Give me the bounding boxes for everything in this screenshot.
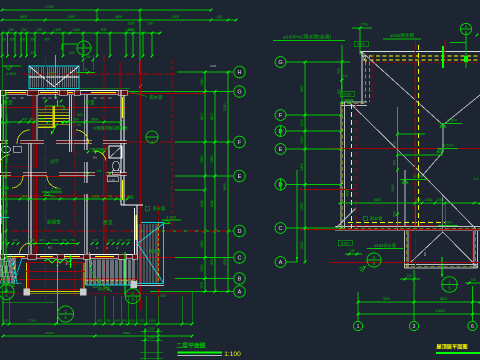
svg-text:600: 600 <box>69 51 75 55</box>
svg-text:G: G <box>237 89 241 95</box>
level 9.574 lower <box>437 144 458 153</box>
dim chain x305 <box>300 61 306 264</box>
bottom bubbles 1 3 6 <box>353 321 362 330</box>
svg-text:A: A <box>279 260 283 266</box>
svg-text:1300: 1300 <box>300 136 304 144</box>
svg-text:90: 90 <box>108 194 112 198</box>
canopy diagonals <box>138 224 164 284</box>
cyan diag B <box>13 258 22 284</box>
exterior wall right <box>120 91 122 206</box>
big dim row y203 <box>339 198 480 205</box>
valley from step corner <box>351 104 423 175</box>
svg-text:1200: 1200 <box>127 22 134 26</box>
ridge vertical <box>442 125 444 152</box>
svg-text:600: 600 <box>122 319 127 323</box>
hip lower-left <box>336 208 356 228</box>
svg-text:1:100: 1:100 <box>224 351 241 358</box>
svg-text:1#楼梯详图见楼梯表: 1#楼梯详图见楼梯表 <box>92 126 128 131</box>
svg-text:4515: 4515 <box>210 257 214 265</box>
svg-text:5180: 5180 <box>223 103 227 111</box>
valley branch to ridge <box>423 152 443 175</box>
stair treads yellow <box>38 109 69 125</box>
svg-text:1200: 1200 <box>300 119 304 127</box>
ticks right of stair <box>82 59 85 62</box>
svg-text:850: 850 <box>393 211 397 217</box>
svg-text:过厅: 过厅 <box>50 158 60 165</box>
interior dim row y199 <box>1 194 123 200</box>
level 3.300 <box>42 187 62 196</box>
svg-text:M2: M2 <box>423 252 427 256</box>
svg-text:4515: 4515 <box>223 257 227 265</box>
roof bay bottom eave <box>405 264 478 266</box>
svg-text:90: 90 <box>2 38 6 42</box>
left edge dim chain <box>1 56 3 324</box>
leader D <box>131 230 234 232</box>
svg-text:730: 730 <box>342 74 347 78</box>
bathroom shower <box>109 146 122 158</box>
svg-text:13020: 13020 <box>45 331 54 335</box>
svg-text:730: 730 <box>406 274 412 278</box>
svg-text:M1: M1 <box>93 156 97 160</box>
canopy hatch <box>138 224 158 283</box>
svg-text:6300: 6300 <box>343 93 351 97</box>
svg-text:雨水管: 雨水管 <box>98 285 110 291</box>
level mark 1.650 <box>2 66 21 76</box>
svg-text:C1: C1 <box>100 96 104 100</box>
svg-text:17940: 17940 <box>45 5 55 9</box>
svg-text:1500: 1500 <box>73 28 81 32</box>
dim row y243 <box>29 238 80 245</box>
grid bubble G2 <box>275 57 286 68</box>
svg-text:G: G <box>278 60 282 66</box>
leader B <box>175 278 234 280</box>
svg-text:900: 900 <box>128 196 134 200</box>
red grid A row right <box>330 262 480 264</box>
svg-text:900: 900 <box>22 194 28 198</box>
6300 box top <box>354 41 368 47</box>
svg-text:8.968: 8.968 <box>413 175 423 179</box>
svg-text:E: E <box>238 174 242 180</box>
svg-text:720: 720 <box>30 238 35 242</box>
wall row y140 <box>0 139 127 141</box>
chain x145-158 below <box>144 328 146 360</box>
level triangle step <box>345 100 353 105</box>
pier right <box>80 289 87 296</box>
dim total 17940 <box>1 5 213 11</box>
grid bubble E <box>234 170 246 182</box>
svg-text:3600: 3600 <box>300 85 304 93</box>
wall dashes x351 <box>351 104 353 228</box>
roof eave upper-left <box>361 52 363 104</box>
svg-text:600: 600 <box>97 319 102 323</box>
svg-text:C1: C1 <box>12 96 16 100</box>
svg-text:D: D <box>238 229 242 235</box>
svg-text:400: 400 <box>39 238 44 242</box>
svg-text:2550: 2550 <box>200 155 204 163</box>
svg-text:污水管: 污水管 <box>0 185 10 190</box>
svg-text:130: 130 <box>125 238 130 242</box>
svg-text:ø150雨水管: ø150雨水管 <box>390 32 415 39</box>
balcony center <box>26 263 28 294</box>
total dim row <box>358 313 480 315</box>
dim marks right y243 <box>91 242 94 245</box>
svg-text:ø100PVC雨水管(全阀): ø100PVC雨水管(全阀) <box>283 34 331 41</box>
level 9.574 upper <box>440 119 462 128</box>
svg-text:430: 430 <box>160 294 166 298</box>
cyan diag A <box>10 256 17 284</box>
grid bubble C <box>234 252 246 264</box>
svg-text:6690: 6690 <box>223 183 227 191</box>
bay hip right <box>443 232 473 263</box>
svg-text:975: 975 <box>200 282 204 288</box>
dim marks left y243 <box>2 242 5 245</box>
bottom dims right plan <box>357 292 359 321</box>
svg-text:120: 120 <box>97 147 102 151</box>
svg-text:2400: 2400 <box>91 117 99 121</box>
svg-text:130: 130 <box>147 22 153 26</box>
grid bubble F2 <box>275 110 286 121</box>
red grid C row right <box>300 229 480 231</box>
right plan bubble leaders <box>286 61 350 63</box>
svg-text:雨水管: 雨水管 <box>3 281 15 287</box>
red grid horizontals <box>22 73 177 75</box>
tick right edge <box>476 34 479 37</box>
svg-text:6300: 6300 <box>357 43 365 47</box>
stair V <box>29 66 79 87</box>
dim row 3 <box>1 28 162 35</box>
svg-text:750: 750 <box>50 194 56 198</box>
leader H <box>177 71 234 73</box>
break squiggle <box>44 259 72 263</box>
white interior wall verticals <box>28 143 30 254</box>
svg-text:ø150雨水管: ø150雨水管 <box>374 242 396 249</box>
svg-text:3.300: 3.300 <box>51 187 62 192</box>
hip top-left <box>362 52 443 125</box>
pier block <box>131 281 138 288</box>
svg-text:3900: 3900 <box>115 15 123 19</box>
svg-text:130: 130 <box>8 28 14 32</box>
leader C <box>160 257 234 259</box>
dim chain x342 <box>337 61 343 105</box>
svg-text:3800: 3800 <box>200 113 204 121</box>
svg-text:1700: 1700 <box>393 141 397 149</box>
roof bay red wall rect <box>410 230 473 263</box>
green bar at ridge top <box>442 46 444 68</box>
svg-text:卧室: 卧室 <box>103 219 113 226</box>
svg-text:2250: 2250 <box>436 198 444 202</box>
svg-text:(20: (20 <box>77 123 82 127</box>
svg-text:3800: 3800 <box>439 297 447 301</box>
svg-text:1500: 1500 <box>52 238 59 242</box>
svg-text:600: 600 <box>3 319 8 323</box>
svg-text:1300: 1300 <box>54 28 62 32</box>
svg-text:7.040: 7.040 <box>442 221 452 225</box>
stair top green line <box>46 105 64 107</box>
wall dashes x415 <box>414 45 416 228</box>
svg-text:C: C <box>279 226 283 232</box>
svg-text:1950: 1950 <box>5 240 9 248</box>
svg-text:2400: 2400 <box>300 163 304 171</box>
detail marker 2/5 left edge <box>0 285 14 300</box>
svg-text:900: 900 <box>73 117 79 121</box>
eave miter corner <box>361 52 367 62</box>
railing bottom cyan <box>86 284 138 286</box>
svg-text:600: 600 <box>10 38 16 42</box>
svg-text:雨水管: 雨水管 <box>149 94 163 101</box>
svg-text:2550: 2550 <box>5 271 9 279</box>
roof eave top <box>361 51 480 53</box>
svg-text:900: 900 <box>416 198 422 202</box>
detail marker 2/5 right <box>125 289 140 304</box>
detail marker 1/5 right plan <box>442 277 458 293</box>
red grid E row right <box>330 148 480 150</box>
detail marker 1/5 bottom <box>58 306 74 322</box>
svg-text:1980: 1980 <box>200 240 204 248</box>
leader F <box>175 141 234 143</box>
svg-text:600: 600 <box>114 319 119 323</box>
svg-text:1380: 1380 <box>200 78 204 86</box>
grid bubble G <box>234 86 246 98</box>
leader E <box>175 175 234 177</box>
svg-text:600: 600 <box>62 238 67 242</box>
svg-text:735: 735 <box>337 68 341 74</box>
svg-text:700: 700 <box>96 169 101 173</box>
interior dim row y122 <box>2 121 38 123</box>
svg-text:6000: 6000 <box>123 331 130 335</box>
pipe leader curve <box>90 265 112 292</box>
windows in top band <box>6 92 26 94</box>
grid bubble D2 <box>275 179 286 190</box>
svg-text:750: 750 <box>37 28 43 32</box>
svg-text:雨水管: 雨水管 <box>149 249 161 254</box>
stair mid line <box>29 76 79 78</box>
svg-text:900: 900 <box>44 38 50 42</box>
leader y190 <box>175 189 205 191</box>
roof bay right eave <box>473 231 475 268</box>
svg-text:2300: 2300 <box>300 241 304 249</box>
section line mid <box>57 255 59 324</box>
svg-text:雨水管: 雨水管 <box>153 205 166 212</box>
tick row y56 <box>1 55 4 58</box>
grid bubble D <box>234 225 246 237</box>
dim chain x397 <box>393 133 399 172</box>
svg-text:二层平面图: 二层平面图 <box>177 342 206 350</box>
svg-text:1200: 1200 <box>148 327 155 331</box>
svg-text:7780: 7780 <box>29 319 36 323</box>
svg-text:780: 780 <box>29 38 35 42</box>
svg-text:卧室: 卧室 <box>85 99 95 106</box>
svg-text:1200: 1200 <box>127 28 134 32</box>
svg-text:900: 900 <box>337 89 341 95</box>
svg-text:8: 8 <box>66 262 68 266</box>
stair down arrow <box>51 123 58 135</box>
svg-text:130: 130 <box>117 238 122 242</box>
section cut line <box>124 252 126 295</box>
svg-text:8.2: 8.2 <box>474 177 479 181</box>
grid bubble A2 <box>275 257 286 268</box>
wall jog right <box>124 204 137 206</box>
svg-text:E: E <box>279 147 283 153</box>
svg-text:2400: 2400 <box>5 155 9 163</box>
right side dim chains <box>200 71 206 293</box>
svg-text:起居室: 起居室 <box>47 219 61 226</box>
6300 box lower <box>338 240 352 246</box>
leader A <box>150 291 234 293</box>
hip top-right <box>443 95 480 125</box>
svg-text:3600: 3600 <box>5 114 9 122</box>
balcony left hatched roof <box>0 258 16 284</box>
exterior wall left <box>0 91 2 255</box>
grid bubble F <box>234 136 246 148</box>
ridge vertical mid-left <box>404 170 406 227</box>
dim row 2 <box>1 15 238 21</box>
bay corner diag <box>473 263 478 268</box>
svg-text:3800: 3800 <box>210 113 214 121</box>
red vertical x415 <box>415 40 417 290</box>
roof eave step <box>341 101 367 103</box>
bay hip left <box>411 232 443 263</box>
railing left cyan <box>85 260 87 286</box>
hip down-right from valley <box>423 175 476 229</box>
pier left <box>24 289 31 296</box>
svg-text:1000: 1000 <box>92 194 100 198</box>
red lines through stair <box>45 55 47 105</box>
level 8.968 <box>400 175 428 184</box>
detail marker 4/5 right plan <box>460 23 471 34</box>
svg-text:C: C <box>238 255 242 261</box>
6300 box left <box>340 91 354 97</box>
svg-text:730: 730 <box>470 278 476 282</box>
svg-text:9.574: 9.574 <box>447 119 457 123</box>
detail marker 1/4 <box>146 131 158 144</box>
svg-text:1560: 1560 <box>200 264 204 272</box>
exterior wall bottom band <box>0 254 137 256</box>
grid bubble B <box>234 273 246 285</box>
svg-text:卧室: 卧室 <box>3 99 13 106</box>
svg-text:1796: 1796 <box>360 23 367 27</box>
svg-text:1700: 1700 <box>138 319 145 323</box>
red grid D partial right <box>300 189 356 191</box>
svg-text:700: 700 <box>89 147 94 151</box>
svg-text:750: 750 <box>21 28 27 32</box>
balcony right railing <box>87 260 135 285</box>
left room fixtures <box>2 146 11 152</box>
svg-text:720: 720 <box>70 238 75 242</box>
ridge vertical to bay apex <box>442 196 444 233</box>
svg-text:4500: 4500 <box>391 184 395 191</box>
bottom dim row1 <box>2 319 194 326</box>
svg-text:6300: 6300 <box>341 242 349 246</box>
svg-text:130: 130 <box>85 55 91 59</box>
canopy cyan right <box>141 222 164 224</box>
svg-text:4140: 4140 <box>210 200 214 208</box>
roof eave left <box>340 102 342 228</box>
exterior wall top band <box>0 90 127 92</box>
svg-text:M1: M1 <box>48 246 52 250</box>
svg-text:4140: 4140 <box>200 200 204 208</box>
svg-text:1200: 1200 <box>172 15 180 19</box>
svg-text:4500: 4500 <box>346 189 350 196</box>
piers top band (maroon) <box>0 90 5 95</box>
svg-text:2400: 2400 <box>67 15 75 19</box>
ext line x140 <box>139 10 141 73</box>
svg-text:130: 130 <box>217 15 223 19</box>
svg-text:H: H <box>238 70 242 76</box>
grid bubble E2a <box>275 126 286 137</box>
svg-text:雨水管: 雨水管 <box>370 215 383 222</box>
grid bubble E2 <box>275 144 286 155</box>
svg-text:950: 950 <box>393 160 397 166</box>
stairwell walls <box>32 95 34 140</box>
leader G <box>128 91 234 93</box>
red grid verticals <box>45 105 47 300</box>
svg-text:书房: 书房 <box>0 208 8 215</box>
door arcs yellow <box>17 130 30 144</box>
wall row y172.5 <box>0 171 127 173</box>
roof bay left eave <box>404 231 406 268</box>
grid bubble C2 <box>275 223 286 234</box>
svg-text:130: 130 <box>82 68 87 72</box>
svg-text:3600: 3600 <box>20 15 28 19</box>
bottom dim row2 <box>2 331 194 338</box>
svg-text:1: 1 <box>357 324 360 330</box>
svg-text:9.574: 9.574 <box>443 144 453 148</box>
svg-text:C1: C1 <box>48 96 52 100</box>
stair bottom bar <box>38 126 55 128</box>
grid bubble A <box>234 286 246 298</box>
svg-text:1200: 1200 <box>148 336 155 340</box>
section line at bay <box>441 257 443 277</box>
svg-text:240: 240 <box>29 117 35 121</box>
svg-text:600: 600 <box>20 38 26 42</box>
basin <box>107 177 118 182</box>
svg-text:600: 600 <box>104 147 109 151</box>
stair landing top (cyan box) <box>29 66 79 89</box>
roof eave bottom <box>335 226 480 228</box>
stair arrow line <box>55 55 57 99</box>
svg-text:2950: 2950 <box>300 202 304 210</box>
svg-text:2550: 2550 <box>210 155 214 163</box>
svg-text:4500: 4500 <box>374 198 382 202</box>
svg-text:1300: 1300 <box>149 319 156 323</box>
svg-text:11600: 11600 <box>435 309 444 313</box>
svg-text:3.200: 3.200 <box>166 215 177 220</box>
svg-text:8: 8 <box>91 262 93 266</box>
extension lines <box>1 33 3 56</box>
svg-text:A: A <box>238 289 242 295</box>
svg-text:C-18: C-18 <box>109 178 115 182</box>
svg-text:7800: 7800 <box>382 297 390 301</box>
svg-text:130: 130 <box>107 238 112 242</box>
stair rail <box>53 106 55 128</box>
svg-text:屋顶层平面图: 屋顶层平面图 <box>436 343 467 351</box>
detail marker 4/5 top <box>77 41 91 55</box>
svg-text:3: 3 <box>413 324 416 330</box>
verticals to bottom dims <box>2 296 4 324</box>
svg-text:130: 130 <box>92 238 97 242</box>
wall dashes above bottom eave <box>348 222 445 224</box>
svg-text:4100: 4100 <box>5 200 9 208</box>
svg-text:1.650: 1.650 <box>6 71 17 76</box>
svg-text:1300: 1300 <box>37 117 45 121</box>
svg-text:900: 900 <box>101 28 107 32</box>
svg-text:1050: 1050 <box>425 198 433 202</box>
svg-text:6: 6 <box>471 324 474 330</box>
svg-text:930: 930 <box>129 319 134 323</box>
svg-text:1300: 1300 <box>210 64 217 68</box>
toilet <box>113 161 120 171</box>
svg-text:930: 930 <box>106 319 111 323</box>
